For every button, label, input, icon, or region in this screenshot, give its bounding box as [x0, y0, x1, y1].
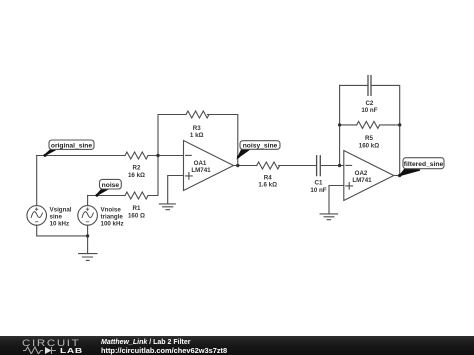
svg-text:160 kΩ: 160 kΩ	[359, 142, 379, 149]
CircuitLab logo	[22, 338, 80, 348]
node flag original_sine	[44, 140, 95, 157]
footer url text	[101, 346, 227, 355]
capacitor C2	[361, 76, 377, 115]
svg-text:noisy_sine: noisy_sine	[243, 143, 278, 150]
svg-text:1 kΩ: 1 kΩ	[190, 132, 204, 139]
svg-text:LM741: LM741	[191, 167, 211, 174]
wire: Vnoise top lead to noise node	[87, 196, 89, 206]
wire: OA2 feedback left vertical	[339, 85, 341, 165]
wire: R5 row right	[381, 124, 400, 126]
svg-text:original_sine: original_sine	[51, 142, 93, 149]
wire: C2 row left	[340, 84, 368, 86]
junction node at ground rail	[86, 234, 89, 237]
svg-text:noise: noise	[102, 182, 120, 189]
svg-text:triangle: triangle	[101, 214, 124, 221]
node flag noise	[96, 179, 122, 196]
wire: OA1 output to R4	[234, 165, 257, 167]
svg-text:16 kΩ: 16 kΩ	[128, 172, 145, 179]
ground below sources	[79, 236, 97, 261]
resistor R3	[186, 111, 209, 139]
wire: Vsignal top lead	[36, 156, 38, 206]
ground at OA1 non-inverting input	[159, 204, 175, 210]
wire: top rail from Vsignal to R2	[37, 155, 125, 157]
svg-text:10 nF: 10 nF	[310, 187, 326, 194]
svg-text:OA2: OA2	[355, 170, 368, 177]
svg-text:sine: sine	[50, 214, 63, 221]
svg-text:10 nF: 10 nF	[361, 107, 377, 114]
wire: OA1 non-inverting input to ground	[168, 176, 184, 204]
node flag filtered_sine	[400, 158, 444, 176]
capacitor C1	[310, 156, 326, 194]
wire: R4 to C1	[279, 165, 316, 167]
svg-text:10 kHz: 10 kHz	[50, 221, 70, 228]
wire: R5 row left	[340, 124, 357, 126]
svg-text:C2: C2	[365, 100, 373, 107]
wire: Vsignal bottom lead to ground rail	[37, 225, 88, 236]
resistor R4	[257, 162, 280, 189]
svg-text:R3: R3	[193, 125, 201, 132]
wire: OA2 feedback right vertical to output	[394, 125, 400, 176]
junction node at OA1 output	[236, 164, 239, 167]
voltage source V1 Vsignal	[27, 206, 72, 228]
junction node at OA2 output	[398, 174, 401, 177]
svg-text:Vnoise: Vnoise	[101, 206, 122, 213]
wire: R3 feedback loop	[158, 115, 238, 166]
svg-text:160 Ω: 160 Ω	[128, 212, 145, 219]
svg-text:Vsignal: Vsignal	[50, 206, 72, 213]
svg-text:R5: R5	[365, 135, 373, 142]
junction node at R5 left	[338, 123, 341, 126]
junction node at R5 right	[398, 123, 401, 126]
svg-text:LM741: LM741	[352, 177, 372, 184]
wire: R2 to OA1 inverting input	[148, 155, 184, 157]
svg-text:R2: R2	[133, 164, 141, 171]
wire: R1 to summing vertical	[148, 156, 158, 196]
voltage source V2 Vnoise	[78, 206, 124, 228]
op-amp U2 OA2 LM741	[344, 151, 394, 201]
junction node at OA2 inverting input	[338, 164, 341, 167]
svg-text:filtered_sine: filtered_sine	[404, 161, 444, 168]
wire: noise node to R1	[88, 195, 125, 197]
svg-text:R1: R1	[133, 205, 141, 212]
wire: C2 row right	[371, 85, 400, 125]
footer title text	[101, 339, 190, 346]
svg-text:OA1: OA1	[194, 160, 207, 167]
resistor R1	[125, 192, 148, 219]
resistor R2	[125, 152, 148, 179]
junction node at R2/R1 summing point	[156, 154, 159, 157]
node flag noisy_sine	[237, 141, 280, 159]
wire: Vnoise bottom lead	[87, 225, 89, 236]
svg-text:100 kHz: 100 kHz	[101, 221, 124, 228]
ground at OA2 non-inverting input	[320, 214, 338, 220]
svg-text:1.6 kΩ: 1.6 kΩ	[258, 182, 277, 189]
op-amp U1 OA1 LM741	[184, 141, 234, 191]
resistor R5	[357, 121, 380, 149]
footer bar	[0, 336, 474, 355]
svg-text:R4: R4	[264, 174, 272, 181]
wire: OA2 non-inverting input to ground	[329, 186, 344, 214]
svg-text:C1: C1	[315, 180, 323, 187]
wire: C1 to OA2 inverting input	[321, 165, 344, 167]
